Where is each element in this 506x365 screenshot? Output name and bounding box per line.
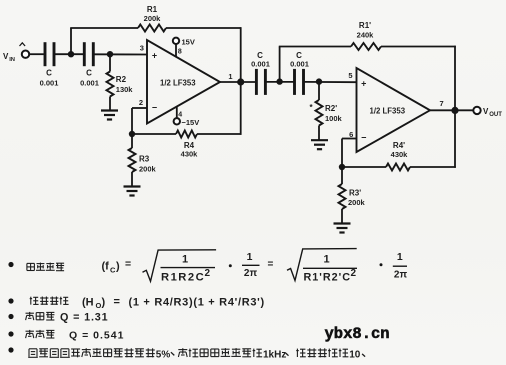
- svg-text:1: 1: [182, 254, 188, 266]
- wire U1 output: [219, 81, 256, 83]
- svg-text:R3': R3': [349, 189, 361, 198]
- node H output junction: [451, 107, 458, 114]
- wire VIN to C1: [29, 53, 44, 55]
- node A junction: [68, 51, 74, 57]
- svg-text:4: 4: [178, 112, 182, 119]
- svg-text:240k: 240k: [357, 31, 375, 40]
- node VIN input terminal: [22, 51, 29, 58]
- svg-text:OUT: OUT: [489, 112, 502, 118]
- resistor R2: [107, 72, 114, 97]
- svg-text:8: 8: [178, 49, 182, 56]
- svg-text:−: −: [361, 133, 366, 143]
- svg-text:2: 2: [205, 268, 211, 279]
- wire node C to R3: [131, 134, 133, 148]
- wire R4 to output vertical: [197, 133, 242, 135]
- svg-text:V: V: [483, 107, 489, 116]
- svg-text:*: *: [310, 103, 314, 112]
- node F junction: [316, 78, 322, 84]
- svg-text:3: 3: [140, 44, 144, 53]
- bullet 1: [8, 262, 13, 267]
- svg-text:1/2 LF353: 1/2 LF353: [370, 107, 406, 116]
- svg-text:1/2 LF353: 1/2 LF353: [160, 79, 196, 88]
- ground for R3': [334, 222, 351, 224]
- wire pin 6 to node G: [342, 138, 357, 140]
- resistor R3': [339, 184, 346, 209]
- capacitor C1: [44, 42, 47, 66]
- resistor R4': [386, 164, 410, 171]
- wire output2 vertical: [454, 46, 456, 168]
- radical 1 sign: [143, 250, 217, 282]
- svg-text:(f: (f: [102, 260, 110, 272]
- svg-text:ybx8.cn: ybx8.cn: [325, 325, 390, 343]
- pin 4 -15V terminal: [174, 118, 180, 124]
- svg-text:R3: R3: [139, 155, 150, 164]
- bullet 2: [8, 298, 13, 303]
- node D output junction: [237, 78, 244, 85]
- svg-text:430k: 430k: [391, 150, 409, 159]
- svg-text:2π: 2π: [394, 270, 408, 281]
- svg-text:−15V: −15V: [182, 118, 200, 127]
- svg-text:=: =: [268, 259, 274, 270]
- node VOUT terminal: [473, 107, 480, 114]
- node E junction: [276, 78, 282, 84]
- svg-text:C: C: [46, 69, 52, 78]
- wire R2' to ground: [318, 126, 320, 141]
- fraction 2 bar: [303, 267, 357, 269]
- svg-text:+: +: [152, 51, 157, 61]
- svg-text:0.001: 0.001: [40, 79, 59, 88]
- svg-text:(1 + R4/R3)(1 + R4'/R3'): (1 + R4/R3)(1 + R4'/R3'): [129, 297, 265, 309]
- svg-text:430k: 430k: [181, 150, 199, 159]
- resistor R2': [316, 100, 323, 126]
- bullet 4: [8, 331, 13, 336]
- text tolerance note line (CJK): [28, 349, 30, 357]
- resistor R1': [351, 43, 381, 50]
- ground for R2': [311, 139, 328, 141]
- wire node G to R4': [342, 166, 386, 168]
- svg-text:): ): [102, 297, 106, 309]
- capacitor C2: [83, 42, 86, 66]
- svg-text:0.001: 0.001: [290, 60, 309, 69]
- svg-text:R1: R1: [147, 5, 158, 14]
- svg-text:2: 2: [139, 98, 143, 107]
- bullet 3: [8, 314, 13, 319]
- wire node A up to R1 feedback: [70, 28, 72, 54]
- resistor R4: [176, 131, 197, 138]
- wire C3 to node E: [266, 81, 295, 83]
- node B junction: [107, 51, 113, 57]
- dot operator 2: [380, 263, 383, 266]
- svg-text:1: 1: [323, 253, 329, 265]
- svg-text:R1'R2'C: R1'R2'C: [304, 272, 352, 284]
- svg-text:(H: (H: [82, 297, 94, 309]
- op-amp U2 triangle: [357, 68, 431, 152]
- wire U2 output: [429, 109, 474, 111]
- svg-text:2: 2: [351, 268, 357, 279]
- svg-text:R4': R4': [393, 141, 405, 150]
- svg-text:1: 1: [397, 251, 403, 263]
- svg-text:−: −: [152, 103, 157, 113]
- wire R2 to ground: [109, 97, 111, 111]
- op-amp U1 triangle: [147, 40, 220, 124]
- ground for R3: [124, 185, 141, 187]
- svg-text:0.001: 0.001: [80, 79, 99, 88]
- svg-text:130k: 130k: [116, 85, 134, 94]
- fraction 1 bar: [161, 267, 216, 269]
- svg-text:R2': R2': [325, 104, 337, 113]
- svg-text:5: 5: [348, 71, 352, 80]
- wire R3' to ground: [341, 209, 343, 223]
- dot operator 1: [229, 264, 232, 267]
- text first-stage label (CJK): [26, 312, 34, 314]
- wire node E up to R1p feedback: [279, 47, 281, 82]
- wire feedback2 right segment: [381, 46, 456, 48]
- node C junction: [129, 131, 135, 137]
- svg-text:1: 1: [228, 72, 232, 81]
- wire pin 2 to node C: [132, 107, 148, 109]
- wire feedback2 left segment: [279, 46, 351, 48]
- svg-text:Q = 0.541: Q = 0.541: [69, 329, 124, 341]
- wire R3 to ground: [131, 172, 133, 186]
- ground for R2: [101, 109, 118, 111]
- text corner-frequency label (CJK): [27, 262, 35, 264]
- svg-text:0.001: 0.001: [251, 60, 270, 69]
- capacitor C3: [255, 69, 258, 95]
- svg-text:200k: 200k: [144, 14, 162, 23]
- svg-text:200k: 200k: [348, 198, 366, 207]
- svg-text:R2: R2: [116, 75, 127, 84]
- svg-text:C: C: [86, 69, 92, 78]
- wire output vertical: [240, 27, 242, 135]
- svg-text:Q = 1.31: Q = 1.31: [60, 311, 109, 323]
- wire node G to R3': [341, 167, 343, 184]
- svg-text:100k: 100k: [325, 114, 343, 123]
- svg-text:+: +: [361, 79, 366, 89]
- svg-text:10: 10: [349, 349, 361, 360]
- svg-text:1kHz: 1kHz: [263, 349, 286, 360]
- pin 8 +15V terminal: [173, 38, 179, 44]
- wire C1 to node A: [55, 53, 84, 55]
- svg-text:R1R2C: R1R2C: [161, 272, 205, 284]
- svg-text:2π: 2π: [244, 268, 258, 279]
- svg-text:=: =: [125, 258, 131, 270]
- svg-text:): ): [116, 260, 120, 272]
- text passband-gain label (CJK): [30, 297, 32, 305]
- wire C2 to opamp + input: [94, 53, 148, 55]
- wire feedback left segment: [70, 27, 138, 29]
- svg-text:1: 1: [247, 251, 253, 263]
- svg-text:IN: IN: [9, 57, 15, 63]
- svg-text:=: =: [114, 296, 120, 308]
- wire node F to R2': [318, 82, 320, 100]
- wire R4' to output2 vertical: [410, 166, 456, 168]
- wire C4 to opamp2 + input: [304, 81, 357, 83]
- svg-text:200k: 200k: [139, 165, 157, 174]
- radical 2 sign: [287, 249, 357, 281]
- wire node C to R4: [132, 133, 176, 135]
- resistor R3: [129, 148, 136, 172]
- svg-text:V: V: [3, 52, 9, 61]
- svg-text:7: 7: [440, 99, 444, 108]
- wire node B to R2: [109, 54, 111, 71]
- capacitor C4: [293, 69, 296, 95]
- bullet 5: [8, 347, 13, 352]
- resistor R1: [138, 25, 166, 32]
- svg-text:R1': R1': [359, 21, 371, 30]
- wire feedback right segment: [166, 27, 241, 29]
- svg-text:5%: 5%: [156, 349, 171, 360]
- node G junction: [339, 164, 345, 170]
- text second-stage label (CJK): [26, 330, 34, 332]
- svg-text:15V: 15V: [182, 38, 195, 47]
